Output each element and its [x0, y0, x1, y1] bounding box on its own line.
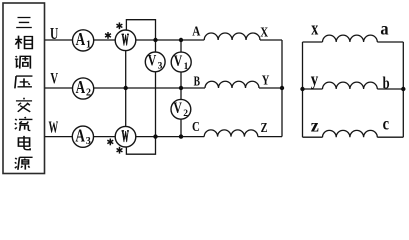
wire U line A1 to W1 [94, 39, 116, 41]
wire a lead [377, 41, 403, 43]
svg-text:3: 3 [158, 62, 163, 72]
wire U line box to A1 [45, 39, 73, 41]
wire primary neutral bus X-Y-Z [281, 40, 283, 137]
char 三 [16, 18, 32, 28]
svg-text:X: X [260, 26, 268, 41]
voltmeter V2 [171, 99, 191, 119]
char 源 [15, 157, 33, 170]
char 电 [18, 136, 30, 150]
char 压 [15, 76, 33, 88]
wire V3 branch U to W line [155, 40, 157, 52]
svg-text:2: 2 [183, 109, 188, 119]
inductor coil x-a [323, 35, 378, 42]
svg-text:W: W [122, 30, 129, 49]
inductor coil A-X [204, 33, 260, 40]
junction node on V at wattmeter commons [124, 86, 128, 90]
svg-text:Y: Y [262, 74, 270, 89]
svg-text:A: A [76, 29, 86, 49]
polarity mark W2 voltage coil [117, 147, 123, 154]
char 流 [15, 117, 33, 131]
svg-text:a: a [380, 19, 388, 39]
voltmeter V3 [145, 52, 165, 72]
svg-text:1: 1 [86, 40, 91, 51]
wire b lead [377, 88, 403, 90]
wire Z to primary bus [258, 136, 282, 138]
svg-text:x: x [311, 20, 319, 40]
wire U line W1 to coil A [136, 39, 205, 41]
source box 三相调压交流电源 [3, 3, 45, 174]
wattmeter W2 [115, 126, 136, 147]
junction node on W at V2 [179, 134, 183, 138]
svg-text:W: W [122, 127, 129, 146]
svg-text:V: V [148, 53, 157, 70]
junction node on V at V1/V2 [179, 86, 183, 90]
wire secondary right bus a-b-c [402, 42, 404, 137]
wire W line A3 to W2 [93, 136, 115, 138]
wattmeter W1 [115, 30, 136, 51]
svg-text:1: 1 [184, 62, 189, 72]
wire W line box to A3 [45, 136, 73, 138]
wire secondary row x lead [303, 41, 323, 43]
svg-text:V: V [173, 100, 182, 117]
wire W2 voltage bottom loop [126, 137, 155, 155]
chinese text 三相调压交流电源 (hand drawn strokes) [15, 18, 33, 170]
inductor coil z-c [323, 130, 378, 137]
svg-text:3: 3 [86, 136, 91, 147]
char 相 [15, 36, 32, 49]
wire secondary row y lead [303, 88, 323, 90]
wire secondary left bus x-y-z [302, 42, 304, 137]
svg-text:A: A [75, 125, 85, 145]
inductor coil B-Y [205, 81, 259, 88]
svg-text:A: A [76, 77, 86, 97]
wire V line A2 to node B and coil [94, 87, 205, 89]
junction node secondary right bus at b [401, 87, 405, 91]
polarity mark W1 current coil [105, 32, 111, 39]
wire c lead [377, 136, 403, 138]
junction node secondary left bus at y [300, 87, 304, 91]
svg-text:Z: Z [261, 121, 268, 136]
inductor coil y-b [323, 82, 378, 89]
char 调 [15, 56, 30, 69]
svg-text:b: b [383, 73, 390, 92]
wire V line box to A2 [45, 87, 73, 89]
svg-text:W: W [49, 117, 59, 136]
junction node on U at wattmeter tap [153, 38, 157, 42]
wire W line W2 to coil C [136, 136, 204, 138]
junction node on W at V3/W2 tap [153, 134, 157, 138]
svg-text:A: A [192, 24, 201, 39]
wire V2 branch V to W line [180, 88, 182, 99]
wire X to primary bus [260, 39, 282, 41]
svg-text:c: c [383, 114, 390, 134]
wire W1 bottom to W2 top via V line [125, 51, 127, 127]
char 交 [16, 98, 32, 112]
polarity mark W2 current coil [107, 139, 113, 146]
wire W1 voltage top loop [126, 20, 155, 40]
polarity mark W1 voltage coil [116, 22, 122, 29]
wire secondary row z lead [303, 136, 323, 138]
svg-text:B: B [194, 74, 200, 89]
svg-text:C: C [192, 120, 200, 135]
svg-text:y: y [311, 69, 319, 89]
wire V1 branch U to V line [180, 40, 182, 52]
svg-text:U: U [50, 24, 58, 43]
inductor coil C-Z [204, 130, 258, 137]
junction node on U at V1 [179, 38, 183, 42]
ammeter A2 [73, 78, 94, 99]
ammeter A3 [72, 126, 93, 147]
ammeter A1 [73, 30, 94, 51]
svg-text:V: V [174, 53, 183, 70]
svg-text:2: 2 [86, 88, 91, 99]
junction node primary bus at Y [280, 86, 284, 90]
svg-text:V: V [50, 71, 58, 88]
voltmeter V1 [171, 52, 191, 72]
wire Y to primary bus [259, 87, 282, 89]
svg-text:z: z [311, 116, 319, 136]
